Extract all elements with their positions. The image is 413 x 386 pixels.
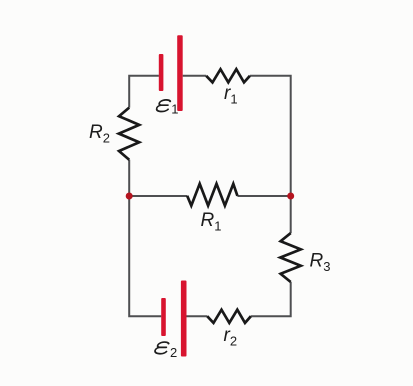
resistor r1 zigzag: [206, 69, 250, 82]
wire middle rung right of R1: [237, 195, 290, 197]
wire left side below R2 to bottom-left corner to battery E2: [129, 160, 161, 316]
wire from r1 to top-right corner down to R3: [250, 76, 291, 233]
wire from r2 to bottom-right corner up to R3: [251, 282, 291, 316]
wire top-left segment from battery E1 to corner and down to R2: [129, 76, 159, 108]
wire from battery E2 positive plate to r2: [186, 315, 207, 317]
resistor R2 zigzag: [119, 108, 139, 160]
node left junction dot: [126, 193, 133, 200]
resistor r2 zigzag: [207, 310, 251, 323]
resistor R3 zigzag: [280, 233, 301, 282]
svg-text:R1: R1: [201, 210, 222, 234]
resistor R1 zigzag: [187, 184, 237, 206]
battery E1 negative plate (short): [159, 54, 164, 91]
label E2 script-E with subscript 2: [154, 342, 177, 360]
svg-text:1: 1: [171, 102, 178, 117]
svg-text:R2: R2: [89, 122, 110, 146]
svg-text:R3: R3: [310, 251, 331, 275]
svg-text:2: 2: [170, 345, 177, 360]
wire middle rung left of R1: [129, 195, 187, 197]
svg-text:r2: r2: [224, 325, 238, 349]
node right junction dot: [287, 193, 294, 200]
battery E2 positive plate (tall): [181, 281, 187, 357]
battery E1 positive plate (tall): [177, 35, 183, 111]
svg-text:r1: r1: [224, 83, 238, 107]
wire from battery E1 positive plate to r1: [183, 75, 207, 77]
battery E2 negative plate (short): [161, 298, 166, 336]
label E1 script-E with subscript 1: [156, 100, 178, 117]
